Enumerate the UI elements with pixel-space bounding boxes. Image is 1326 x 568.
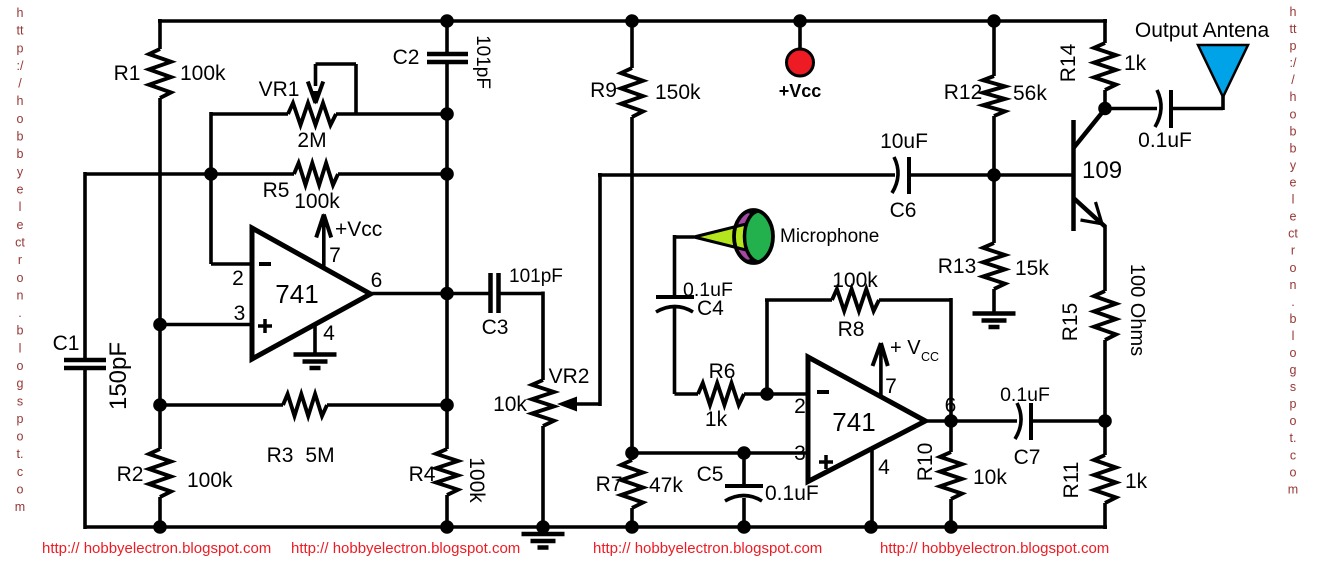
wire mid row right (909, 173, 1074, 177)
node junction R5 right (440, 167, 454, 181)
svg-text:R4: R4 (409, 463, 436, 486)
node junction R6/R8 (760, 387, 774, 401)
resistor R11 (1094, 455, 1116, 503)
node junction U2 pin4 bottom (864, 520, 878, 534)
svg-text:+Vcc: +Vcc (779, 81, 822, 101)
resistor R3 (283, 394, 327, 416)
node junction +Vcc (793, 14, 807, 28)
resistor R10 (940, 452, 962, 499)
svg-text:R9: R9 (590, 79, 617, 102)
wire R11 bottom lead (1103, 503, 1107, 529)
emitter arrow Q1 (1081, 220, 1103, 224)
svg-text:100k: 100k (180, 62, 226, 85)
wire R15 bottom lead (1103, 340, 1107, 423)
wire R6 left lead (675, 392, 699, 396)
svg-text:7: 7 (329, 244, 341, 267)
wire antenna row right (1171, 107, 1223, 111)
ground R13 (973, 311, 1016, 316)
wire R10 top lead (949, 421, 953, 452)
wire C1 rail upper (83, 172, 87, 360)
wire R7 bottom lead (630, 508, 634, 529)
resistor R13 (983, 243, 1005, 289)
U2 inverting input minus sign (817, 390, 829, 394)
node junction VR2 bottom (536, 520, 550, 534)
svg-text:4: 4 (878, 456, 890, 479)
svg-text:100k: 100k (187, 469, 233, 492)
svg-text:C2: C2 (393, 46, 420, 69)
wire R5 left lead (211, 172, 294, 176)
antenna ANT1 (1198, 45, 1248, 97)
power +Vcc terminal (787, 49, 814, 76)
svg-text:R10: R10 (914, 443, 937, 482)
capacitor C4 (656, 295, 694, 299)
svg-text:VR2: VR2 (549, 365, 590, 388)
node junction C1/VR1 branch (204, 167, 218, 181)
resistor R2 (149, 449, 171, 497)
capacitor C5 (725, 484, 763, 488)
wire top rail (158, 19, 1107, 23)
svg-text:109: 109 (1082, 157, 1122, 184)
wire left rail mid (158, 98, 162, 449)
resistor R9 (621, 68, 643, 117)
wire left rail lower (158, 497, 162, 529)
node junction R3 left (153, 398, 167, 412)
svg-text:6: 6 (371, 269, 383, 292)
wire R3 left lead (160, 403, 283, 407)
wire +Vcc stub (798, 19, 802, 51)
svg-text:6: 6 (945, 394, 957, 417)
node junction U2 output (944, 414, 958, 428)
svg-text:3: 3 (234, 302, 246, 325)
transistor Q1 emitter (1074, 198, 1102, 224)
wire R8 left lead (765, 298, 832, 302)
svg-text:C7: C7 (1014, 446, 1041, 469)
svg-text:1k: 1k (1125, 470, 1148, 493)
wire U1 pin7 Vcc stub (322, 216, 326, 268)
svg-text:56k: 56k (1013, 82, 1047, 105)
capacitor C6 (892, 157, 898, 193)
resistor R1 (149, 49, 171, 98)
node junction R9 top (625, 14, 639, 28)
node junction VR1 right (440, 107, 454, 121)
ground U1 pin4 (294, 352, 337, 357)
svg-text:100k: 100k (465, 457, 488, 503)
wire C3 left lead (447, 292, 491, 296)
wire R10 bottom lead (949, 499, 953, 529)
node junction R12 top (987, 14, 1001, 28)
svg-text:150pF: 150pF (105, 342, 132, 410)
transistor Q1 collector (1074, 109, 1106, 148)
svg-text:2: 2 (794, 395, 806, 418)
svg-text:0.1uF: 0.1uF (1000, 384, 1050, 406)
svg-text:2: 2 (232, 267, 244, 290)
wire U2 pin3 lead (632, 451, 809, 455)
node junction C7/R15/R11 (1098, 414, 1112, 428)
potentiometer VR1 (288, 103, 336, 125)
svg-text:R8: R8 (838, 318, 865, 341)
wire VR2 top lead (541, 292, 545, 381)
svg-text:150k: 150k (655, 81, 701, 104)
node junction C2 rail bottom (440, 520, 454, 534)
svg-text:100k: 100k (294, 190, 340, 213)
op-amp U1 triangle (252, 228, 371, 359)
svg-text:R12: R12 (944, 81, 983, 104)
svg-text:Microphone: Microphone (780, 226, 879, 247)
U1 inverting input minus sign (259, 262, 271, 266)
resistor R4 (436, 449, 458, 495)
wire U2 output lead (924, 419, 1017, 423)
wire antenna stub (1221, 95, 1225, 110)
svg-text:R11: R11 (1060, 462, 1083, 499)
svg-text:100k: 100k (832, 269, 878, 292)
wire R8 left vertical (765, 300, 769, 396)
node junction pin3/C5 (737, 446, 751, 460)
wire op-amp U1 pin2 lead (211, 262, 253, 266)
svg-text:R5: R5 (263, 179, 290, 202)
svg-text:101pF: 101pF (509, 266, 563, 287)
wire C1 branch top horizontal (85, 172, 211, 176)
svg-text:R13: R13 (938, 255, 977, 278)
svg-text:R7: R7 (596, 473, 623, 496)
wire VR2 wiper lead (573, 402, 600, 406)
svg-text:741: 741 (275, 279, 318, 309)
op-amp U2 triangle (808, 357, 925, 482)
node junction R10 bottom (944, 520, 958, 534)
resistor R14 (1094, 43, 1116, 90)
wiper arrow VR1 (310, 91, 321, 105)
ground main bottom (541, 527, 545, 534)
wire antenna row left (1105, 107, 1157, 111)
svg-text:2M: 2M (297, 129, 326, 152)
svg-text:0.1uF: 0.1uF (765, 482, 819, 505)
wire C3 right lead (499, 292, 544, 296)
svg-text:0.1uF: 0.1uF (1138, 129, 1192, 152)
wire C5 bottom lead (742, 498, 746, 529)
svg-text:10k: 10k (973, 466, 1007, 489)
wire mid row left (598, 173, 895, 177)
transistor Q1 base bar (1071, 120, 1076, 231)
node junction R7 bottom (625, 520, 639, 534)
node junction pin3/R7 (625, 446, 639, 460)
node junction C5 bottom (737, 520, 751, 534)
svg-text:R3: R3 (267, 444, 294, 467)
resistor R12 (983, 76, 1005, 116)
svg-text:15k: 15k (1015, 257, 1049, 280)
svg-text:10k: 10k (493, 393, 527, 416)
wire VR1 wiper elbow (314, 64, 318, 86)
svg-text:7: 7 (885, 375, 897, 398)
wire bottom rail (85, 525, 1107, 529)
capacitor C7 (1015, 403, 1021, 439)
resistor R15 (1094, 291, 1116, 340)
capacitor C2 (427, 52, 468, 57)
svg-text:http:// hobbyelectron.blogspot: http:// hobbyelectron.blogspot.com (880, 540, 1109, 557)
wire VR2 bottom lead (541, 426, 545, 529)
wire C2 rail top (445, 19, 449, 54)
arrow U1 +Vcc (318, 213, 329, 227)
capacitor C1 (64, 358, 106, 363)
U2 non-inverting input plus sign (819, 460, 833, 464)
wire U2 pin4 stub (870, 448, 874, 529)
wire C2 rail bottom (445, 495, 449, 529)
wire R5 right lead (338, 172, 447, 176)
wire R8 right vertical (949, 298, 953, 421)
svg-text:R1: R1 (114, 62, 141, 85)
svg-text:R6: R6 (709, 360, 736, 383)
wiper arrow VR2 (557, 397, 577, 412)
wire C4 bottom lead (673, 306, 677, 394)
resistor R6 (698, 383, 744, 405)
svg-text:C4: C4 (697, 297, 724, 320)
node junction U1 output (440, 287, 454, 301)
svg-text:http:// hobbyelectron.blogspot: http:// hobbyelectron.blogspot.com (291, 540, 520, 557)
wire VR1 right lead (336, 112, 447, 116)
svg-text:http:// hobbyelectron.blogspot: http:// hobbyelectron.blogspot.com (42, 540, 271, 557)
wire C7 right lead (1031, 419, 1107, 423)
resistor R8 (832, 289, 879, 311)
svg-text:C5: C5 (697, 463, 724, 486)
svg-text:R14: R14 (1057, 43, 1080, 82)
potentiometer VR2 (532, 380, 554, 426)
svg-text:+ V: + V (890, 337, 921, 359)
node junction C2 top (440, 14, 454, 28)
wire R11 top lead (1103, 421, 1107, 455)
svg-text:R2: R2 (117, 463, 144, 486)
wire R3 right lead (327, 403, 447, 407)
node junction base/R12 (987, 168, 1001, 182)
node junction R3 right (440, 398, 454, 412)
wire C5 top lead (742, 453, 746, 486)
wire R13 ground stub (992, 289, 996, 314)
capacitor C8 output (1155, 90, 1161, 127)
svg-text:101pF: 101pF (472, 35, 493, 89)
wire U1 output lead (369, 292, 447, 296)
svg-text:R15: R15 (1059, 303, 1082, 342)
wire R12-R13 rail (992, 116, 996, 243)
svg-text:4: 4 (323, 322, 335, 345)
wire C2 rail long (445, 62, 449, 449)
capacitor C3 (488, 273, 493, 313)
svg-text:http:// hobbyelectron.blogspot: http:// hobbyelectron.blogspot.com (593, 540, 822, 557)
svg-text:C1: C1 (53, 332, 80, 355)
resistor R5 (294, 163, 338, 185)
wire R9 rail top (630, 19, 634, 68)
svg-text:5M: 5M (305, 444, 334, 467)
svg-text:100 Ohms: 100 Ohms (1126, 264, 1148, 356)
svg-text:47k: 47k (649, 474, 683, 497)
wire microphone lead (675, 235, 695, 239)
svg-text:CC: CC (921, 350, 939, 364)
svg-text:VR1: VR1 (259, 78, 300, 101)
svg-text:1k: 1k (1124, 52, 1147, 75)
node junction left rail bottom (153, 520, 167, 534)
node junction collector/R14 (1098, 102, 1112, 116)
node junction pin3/left rail (153, 318, 167, 332)
svg-text:1k: 1k (705, 408, 728, 431)
wire inverting branch vertical (209, 112, 213, 264)
wire U1 pin3 lead (160, 323, 253, 327)
svg-text:C6: C6 (890, 199, 917, 222)
wire U2 pin7 Vcc stub (879, 344, 883, 397)
wire R14 bottom lead (1103, 90, 1107, 110)
wire VR1 left lead (211, 112, 288, 116)
wire C1 rail lower (83, 368, 87, 529)
wire R9 rail long (630, 117, 634, 460)
svg-text:Output Antena: Output Antena (1135, 19, 1270, 42)
wire emitter rail (1103, 225, 1107, 291)
arrow U2 +Vcc (873, 343, 881, 366)
resistor R7 (621, 460, 643, 508)
wire R14 top lead (1103, 19, 1107, 43)
wire left rail upper (R1 top lead) (158, 19, 162, 49)
svg-text:741: 741 (832, 407, 875, 437)
wire R6 right lead (744, 392, 809, 396)
svg-text:+Vcc: +Vcc (335, 218, 382, 241)
wire R12 rail top (992, 19, 996, 76)
wire R8 right lead (879, 298, 951, 302)
wire U1 pin4 stub (313, 325, 317, 354)
svg-text:C3: C3 (482, 316, 509, 339)
svg-text:10uF: 10uF (880, 130, 928, 153)
U1 non-inverting input plus sign (258, 324, 272, 328)
